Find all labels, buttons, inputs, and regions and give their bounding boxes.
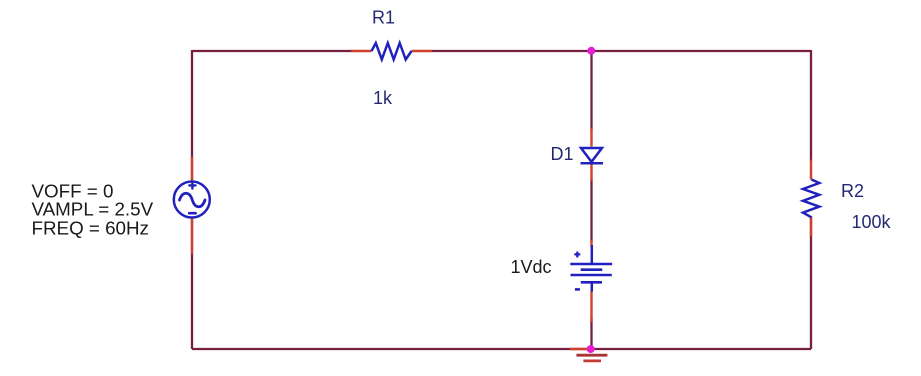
diode D1 xyxy=(581,128,604,181)
resistor R1 xyxy=(351,43,432,60)
wire middle branch xyxy=(590,51,592,349)
svg-text:VAMPL = 2.5V: VAMPL = 2.5V xyxy=(32,199,154,220)
svg-text:FREQ = 60Hz: FREQ = 60Hz xyxy=(32,218,149,239)
resistor R2 xyxy=(803,160,819,237)
svg-text:100k: 100k xyxy=(852,212,892,232)
svg-text:1Vdc: 1Vdc xyxy=(511,257,552,277)
V1 parameters text xyxy=(32,180,154,238)
wire bottom xyxy=(192,348,811,350)
wire left xyxy=(191,50,193,349)
wire right xyxy=(810,50,812,349)
dc source V2 (battery 1Vdc) xyxy=(570,240,612,322)
junction bottom xyxy=(587,345,595,353)
svg-text:1k: 1k xyxy=(373,88,393,108)
junction top xyxy=(587,47,595,55)
svg-text:R1: R1 xyxy=(372,8,395,28)
svg-text:R2: R2 xyxy=(841,181,864,201)
svg-text:D1: D1 xyxy=(551,144,574,164)
wire top xyxy=(192,50,811,52)
ground 0 xyxy=(570,349,607,361)
voltage source V1 (VSIN) xyxy=(174,158,210,253)
